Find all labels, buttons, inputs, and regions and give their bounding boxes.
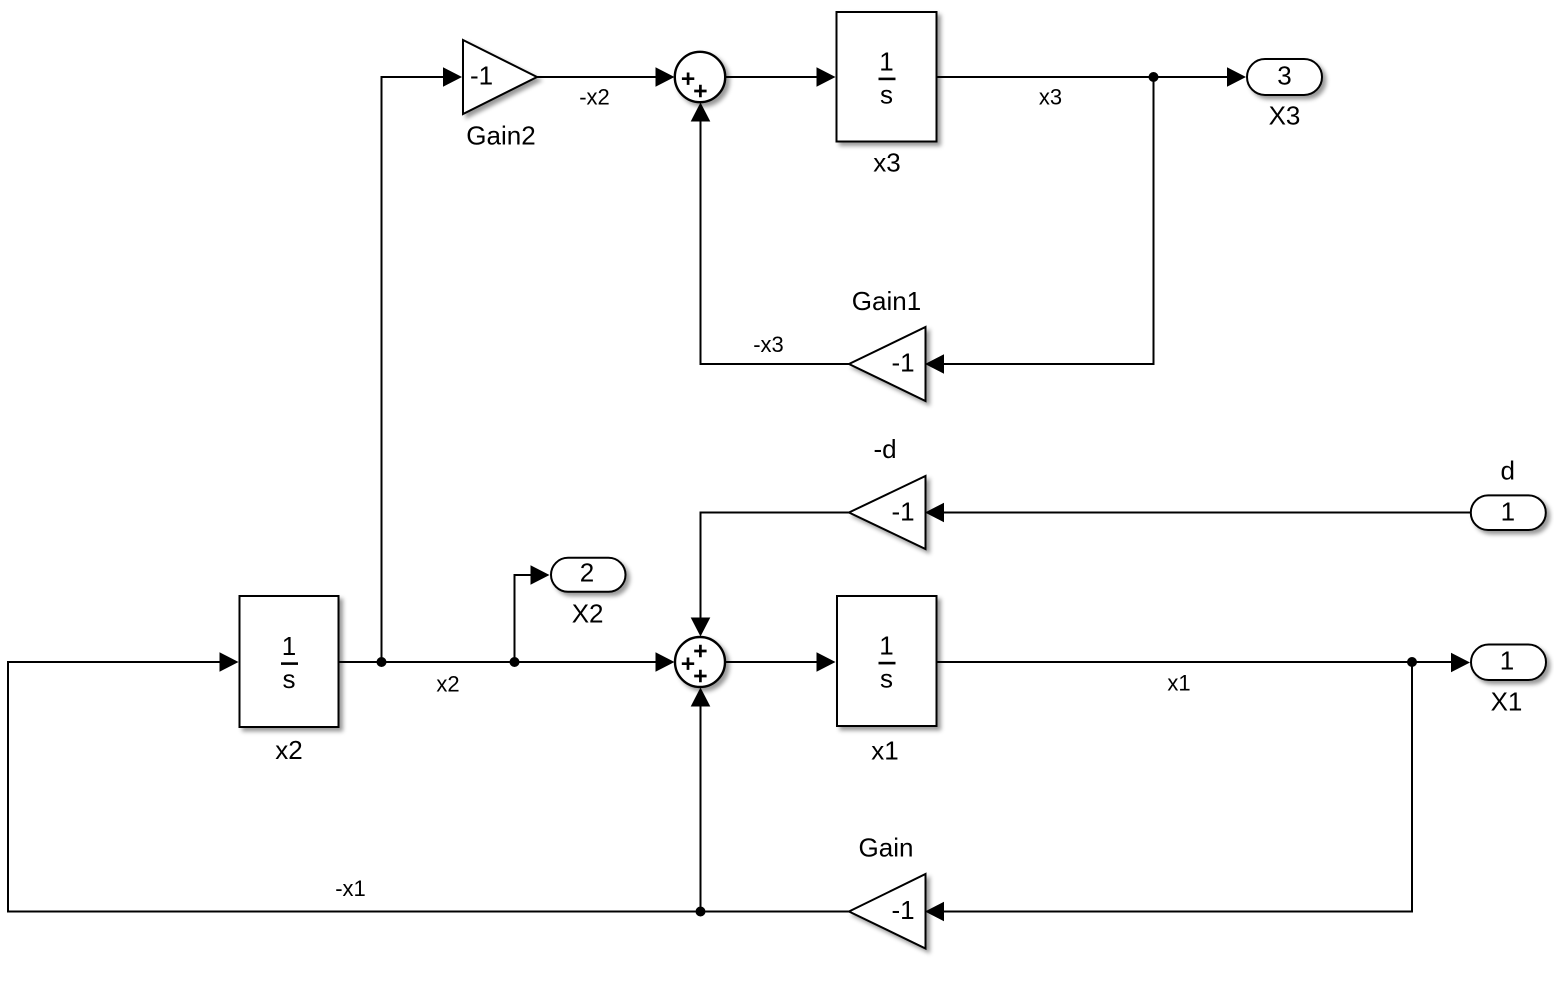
arrowhead into Sum2 left: [656, 652, 675, 672]
wire x2 output to Sum2: [339, 661, 658, 663]
arrowhead into x3 block: [817, 67, 836, 87]
svg-text:d: d: [1500, 455, 1514, 485]
arrowhead into Gain2: [443, 67, 462, 87]
svg-text:-1: -1: [470, 61, 493, 91]
input port d (1): [1471, 495, 1546, 530]
svg-text:X3: X3: [1269, 100, 1301, 130]
wire branch up to X2 port: [515, 575, 532, 662]
wire x3 feedback down to Gain1: [944, 77, 1154, 364]
gain Gain2 (-1): [463, 40, 537, 114]
arrowhead into X1 port: [1451, 653, 1470, 673]
svg-text:x3: x3: [873, 148, 900, 178]
wire x3 output to X3 port: [937, 76, 1229, 78]
gain Gain (-1): [849, 874, 926, 949]
integrator block x3 (1/s): [837, 12, 937, 142]
Sum1 plus sign (bottom input): [694, 85, 706, 97]
wire x1 output to X1 port: [937, 661, 1453, 663]
arrowhead into Sum1 left: [656, 67, 675, 87]
svg-text:X2: X2: [572, 598, 604, 628]
sum block Sum2: [675, 637, 725, 687]
svg-text:-x1: -x1: [335, 876, 366, 901]
svg-text:1: 1: [1500, 646, 1514, 676]
svg-text:-1: -1: [891, 496, 914, 526]
svg-text:Gain1: Gain1: [852, 286, 921, 316]
junction on x3 output: [1149, 72, 1159, 82]
Sum2 plus sign (top input): [694, 645, 706, 657]
junction x2/Gain2 branch: [377, 657, 387, 667]
arrowhead into X2 port: [531, 565, 550, 585]
integrator block x2 (1/s): [240, 596, 339, 727]
wire x2 branch up to Gain2 input: [382, 77, 444, 662]
svg-text:3: 3: [1277, 60, 1291, 90]
Sum2 plus sign (bottom input): [694, 670, 706, 682]
arrowhead into X3 port: [1227, 67, 1246, 87]
svg-text:1: 1: [282, 631, 296, 661]
arrowhead into Sum2 bottom: [691, 688, 711, 707]
arrowhead into -d gain: [925, 503, 944, 523]
svg-text:1: 1: [879, 47, 893, 77]
output port X2 (2): [551, 558, 626, 592]
svg-text:x1: x1: [871, 736, 898, 766]
Sum1 plus sign (left input): [682, 73, 694, 85]
output port X3 (3): [1247, 59, 1322, 95]
svg-text:-d: -d: [873, 434, 896, 464]
svg-text:x1: x1: [1167, 671, 1190, 696]
svg-text:-x3: -x3: [753, 332, 784, 357]
arrowhead into Sum1 bottom: [691, 103, 711, 122]
wire Sum2 to integrator x1: [725, 661, 818, 663]
junction -x1/Sum2 branch: [696, 907, 706, 917]
arrowhead into Sum2 top: [691, 618, 711, 637]
wire -x1 feedback into x2 integrator: [8, 662, 849, 912]
arrowhead into x2 block: [220, 652, 239, 672]
integrator block x1 (1/s): [837, 596, 937, 726]
svg-text:s: s: [880, 664, 893, 694]
junction x1/feedback branch: [1407, 657, 1417, 667]
svg-text:x3: x3: [1039, 84, 1062, 109]
wire Gain1 output to Sum1 bottom: [701, 121, 850, 365]
arrowhead into Gain1: [925, 354, 944, 374]
svg-text:1: 1: [879, 631, 893, 661]
wire x1 feedback down to Gain: [944, 662, 1412, 912]
gain Gain1 (-1): [849, 327, 926, 401]
svg-text:x2: x2: [275, 735, 302, 765]
svg-text:Gain2: Gain2: [466, 121, 535, 151]
svg-text:s: s: [283, 664, 296, 694]
svg-text:Gain: Gain: [859, 833, 914, 863]
svg-text:X1: X1: [1491, 687, 1523, 717]
svg-text:1: 1: [1501, 496, 1515, 526]
output port X1 (1): [1471, 645, 1546, 681]
svg-text:-1: -1: [891, 895, 914, 925]
svg-text:-x2: -x2: [579, 85, 610, 110]
sum block Sum1: [675, 52, 725, 102]
Sum2 plus sign (left input): [682, 658, 694, 670]
junction x2/X2 branch: [510, 657, 520, 667]
wire branch up to Sum2 bottom: [700, 706, 702, 912]
arrowhead into x1 block: [817, 652, 836, 672]
svg-text:s: s: [880, 80, 893, 110]
wire Gain2 output to Sum1: [537, 76, 657, 78]
wire Sum1 to integrator x3: [725, 76, 818, 78]
svg-text:-1: -1: [891, 348, 914, 378]
arrowhead into Gain: [925, 902, 944, 922]
gain -d (-1): [849, 476, 926, 549]
svg-text:x2: x2: [436, 672, 459, 697]
wire -d output to Sum2 top: [701, 513, 850, 619]
svg-text:2: 2: [580, 558, 594, 588]
wire d to -d gain: [944, 512, 1470, 514]
